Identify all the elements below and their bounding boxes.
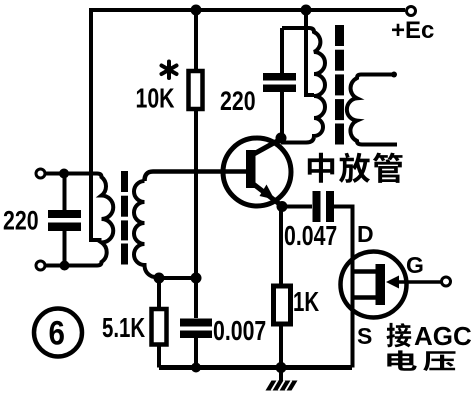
ground xyxy=(279,367,283,381)
node bottom rail junction (0.007) xyxy=(191,363,201,373)
wire +Ec drop to transformer tap xyxy=(306,8,314,95)
inductor T1 primary (input transformer) xyxy=(97,174,113,266)
wire input cap bottom lead xyxy=(63,231,67,266)
terminal +Ec xyxy=(407,7,416,16)
svg-text:D: D xyxy=(357,221,374,247)
capacitor 0.007 xyxy=(180,319,212,327)
wire input cap top lead xyxy=(63,174,67,211)
wire bias node xyxy=(159,276,196,280)
svg-text:10K: 10K xyxy=(136,83,175,115)
svg-text:+Ec: +Ec xyxy=(391,17,434,44)
svg-text:S: S xyxy=(357,323,372,349)
resistor R1 10K xyxy=(189,71,203,109)
transistor Q1 base bar xyxy=(246,150,256,188)
wire emitter to 1K xyxy=(279,207,283,287)
svg-text:1K: 1K xyxy=(293,287,319,318)
FET Q2 gate lead with arrow xyxy=(392,280,442,284)
terminal input top xyxy=(36,169,45,178)
wire 0.007 lower lead xyxy=(194,338,198,368)
svg-text:220: 220 xyxy=(3,206,39,236)
label 中放管 xyxy=(308,153,403,183)
svg-text:5.1K: 5.1K xyxy=(102,313,145,344)
wire 10K branch upper lead xyxy=(194,10,198,71)
resistor R3 1K xyxy=(274,286,291,324)
asterisk mark xyxy=(162,62,177,79)
core T2 (dashed bar) xyxy=(335,25,344,145)
core T1 (dashed bar) xyxy=(121,171,128,265)
FET Q2 circle xyxy=(341,252,407,318)
label 电压 xyxy=(387,350,455,371)
wire cap top lead to winding top xyxy=(280,28,284,73)
node junction on top rail (+Ec drop) xyxy=(301,5,312,16)
capacitor 220 (top, across primary) xyxy=(263,73,296,81)
wire bottom rail xyxy=(159,365,352,370)
svg-text:6: 6 xyxy=(49,314,65,352)
node bias junction right xyxy=(191,273,202,284)
node input junction bottom xyxy=(60,261,70,271)
wire input bottom xyxy=(45,264,97,268)
node junction on top rail (10K branch) xyxy=(191,5,202,16)
node input junction top xyxy=(59,169,69,179)
node emitter junction xyxy=(277,201,288,212)
wire emitter to 0.047 xyxy=(282,205,312,209)
FET Q2 gate bar xyxy=(376,264,386,305)
capacitor 220 (input) xyxy=(48,210,81,218)
transistor Q1 emitter lead with arrow xyxy=(252,183,282,206)
node collector junction xyxy=(276,133,287,144)
label 接 (of 接AGC) xyxy=(387,323,412,348)
wire 1K lower lead xyxy=(279,324,283,368)
svg-text:0.007: 0.007 xyxy=(213,315,266,347)
inductor T2 primary (output transformer) xyxy=(281,28,325,143)
wire top supply rail xyxy=(89,8,405,12)
node bias junction left xyxy=(154,273,165,284)
svg-text:0.047: 0.047 xyxy=(284,220,337,252)
wire cap bottom lead to collector node xyxy=(280,92,284,139)
node small end dot on secondary top lead xyxy=(391,72,397,78)
wire 0.047 to FET drain xyxy=(334,207,353,368)
wire base lead from T1 secondary xyxy=(145,172,247,182)
wire input top xyxy=(45,172,97,176)
svg-text:AGC: AGC xyxy=(414,321,472,351)
node bottom rail junction (1K/ground) xyxy=(276,362,287,373)
svg-text:G: G xyxy=(406,252,424,278)
wire left feedback vertical with tap jog xyxy=(91,8,102,240)
wire bias to 5.1K xyxy=(157,278,161,309)
resistor R2 5.1K xyxy=(152,309,167,345)
inductor T2 secondary xyxy=(347,75,397,145)
wire 5.1K lower lead xyxy=(157,345,161,368)
FET Q2 channel stubs xyxy=(352,269,377,274)
terminal input bottom xyxy=(36,261,45,270)
capacitor 0.047 xyxy=(313,191,321,222)
inductor T1 secondary xyxy=(134,181,159,278)
transistor Q1 collector lead xyxy=(252,139,281,155)
wire 10K lower lead down to bias node xyxy=(194,109,198,318)
transistor Q1 circle xyxy=(223,138,291,206)
svg-text:220: 220 xyxy=(220,87,256,117)
figure number circle 6 xyxy=(34,309,82,357)
terminal G (AGC) xyxy=(442,277,451,286)
